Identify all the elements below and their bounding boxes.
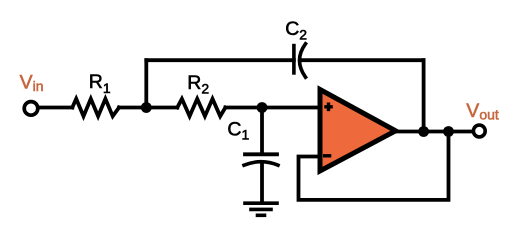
svg-text:R2: R2 [187, 72, 209, 97]
output junction dot (bottom feedback) [443, 126, 454, 137]
wire Vin to R1 [40, 106, 73, 110]
op-amp U1 [320, 90, 396, 172]
svg-text:Vout: Vout [466, 100, 499, 122]
wire node B down to C1 [260, 108, 264, 153]
svg-text:R1: R1 [89, 71, 111, 96]
node B junction dot [257, 102, 268, 113]
svg-text:C2: C2 [285, 18, 307, 42]
wire node A up to top rail [144, 60, 148, 107]
op-amp + input symbol [324, 103, 333, 112]
capacitor C1 top plate [245, 152, 277, 156]
capacitor C1 bottom curved plate [244, 162, 278, 166]
output junction dot (top feedback) [418, 126, 429, 137]
wire R2 to node B [225, 106, 262, 110]
wire op-amp minus input feedback loop [299, 132, 449, 200]
wire top rail left of C2 [146, 58, 294, 62]
ground bar 2 [251, 208, 271, 212]
op-amp - input symbol [323, 154, 331, 157]
svg-text:Vin: Vin [20, 72, 44, 95]
capacitor C2 left plate [292, 46, 296, 73]
ground bar 1 [245, 201, 277, 205]
svg-text:C1: C1 [227, 118, 249, 142]
wire op-amp output to Vout [397, 130, 472, 134]
wire top rail right of C2 [303, 58, 424, 62]
wire node B to op-amp + input [262, 106, 319, 110]
terminal Vin [24, 102, 38, 116]
wire node A to R2 [146, 106, 177, 110]
node A junction dot [141, 102, 152, 113]
wire top rail down to output [422, 60, 426, 131]
capacitor C2 right curved plate [300, 44, 306, 77]
resistor R2 [177, 99, 225, 116]
wire R1 to node A [119, 106, 146, 110]
resistor R1 [72, 99, 119, 116]
terminal Vout [473, 125, 485, 137]
ground bar 3 [258, 214, 265, 218]
wire C1 to ground [260, 163, 264, 202]
